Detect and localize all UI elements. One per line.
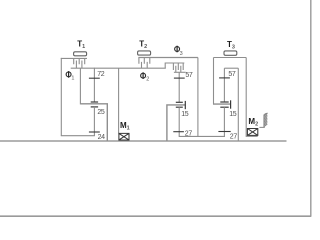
svg-text:T1: T1 xyxy=(77,40,85,51)
gear 72 vertical xyxy=(93,68,95,102)
gear 15 shaft lower (right group) xyxy=(223,107,225,136)
clutch F3 lower teeth xyxy=(176,66,181,73)
clutch F3 upper teeth xyxy=(173,63,183,70)
gear 57 vertical (right group) xyxy=(223,68,225,102)
svg-text:M2: M2 xyxy=(248,117,258,128)
page right border xyxy=(310,0,312,217)
clutch F3 lower bar xyxy=(174,71,186,73)
page bottom border xyxy=(0,215,311,217)
ring gear box right vertical xyxy=(237,68,239,141)
carrier end cap (right group) xyxy=(230,100,232,108)
gear 57 mesh tick (middle) xyxy=(174,77,185,79)
clutch F1 label xyxy=(66,72,71,77)
svg-text:T3: T3 xyxy=(227,40,235,51)
brake T3 band rectangle xyxy=(224,51,237,55)
motor M1 shaft xyxy=(118,68,120,133)
sun shaft vertical (left group) xyxy=(79,68,81,104)
svg-text:57: 57 xyxy=(185,72,193,79)
carrier bar (right group) xyxy=(213,103,231,105)
gear 27 mesh tick (right) xyxy=(218,131,230,133)
ring gear box top (right group) xyxy=(224,67,238,69)
svg-text:57: 57 xyxy=(228,71,236,78)
clutch F2 lower teeth xyxy=(142,62,148,68)
clutch F3 label xyxy=(175,47,180,52)
gear 27 mesh tick (middle) xyxy=(173,131,184,133)
bus A top line (T2 member to right drop) xyxy=(138,57,198,59)
housing box right vertical with motor flange xyxy=(246,58,258,137)
carrier tick upper (right group) xyxy=(220,101,228,103)
svg-text:15: 15 xyxy=(229,111,237,118)
bottom link shaft (middle to right group) xyxy=(179,135,225,137)
clutch F2 upper teeth xyxy=(139,58,150,64)
svg-text:M1: M1 xyxy=(120,121,130,132)
clutch F1 upper teeth xyxy=(74,58,85,64)
clutch F1 lower teeth xyxy=(76,61,82,69)
svg-text:2: 2 xyxy=(146,77,149,83)
motor M2 wall hatch symbol xyxy=(259,113,267,127)
middle shaft vertical upper xyxy=(178,72,180,102)
carrier tick upper (middle group) xyxy=(176,101,183,103)
gear 57 mesh tick (right) xyxy=(219,77,230,79)
svg-text:T2: T2 xyxy=(139,40,147,51)
brake T2 band rectangle xyxy=(138,51,151,55)
carrier end cap (middle group) xyxy=(184,101,186,109)
clutch F1 upper plate line xyxy=(61,57,87,59)
svg-text:27: 27 xyxy=(230,133,238,140)
svg-text:1: 1 xyxy=(71,75,74,81)
brake T1 band rectangle xyxy=(74,52,87,56)
bus A right drop xyxy=(197,58,199,137)
main shaft bus (F1 lower bar to F2, motor M1 tap) xyxy=(71,67,166,69)
gear 24 mesh tick xyxy=(89,131,100,133)
svg-text:3: 3 xyxy=(180,51,183,57)
carrier tick lower (right group) xyxy=(220,106,228,108)
frame bottom horizontal (left group) xyxy=(61,135,95,137)
carrier tick upper (left group) xyxy=(91,101,98,103)
middle shaft vertical lower xyxy=(178,107,180,136)
carrier tick lower (left group) xyxy=(91,106,98,108)
gear 24 vertical xyxy=(93,107,95,136)
carrier bar (left group) xyxy=(80,104,107,141)
svg-text:25: 25 xyxy=(97,109,105,116)
clutch F2 label xyxy=(141,73,146,78)
gear 72 mesh tick xyxy=(89,77,100,79)
svg-text:72: 72 xyxy=(97,71,105,78)
svg-text:24: 24 xyxy=(98,134,106,141)
motor M2 crossed box xyxy=(247,129,257,136)
svg-text:15: 15 xyxy=(181,111,189,118)
step link from bus to clutch F3 xyxy=(165,63,184,68)
frame left vertical (left group) xyxy=(60,58,62,136)
motor M1 crossed box xyxy=(119,133,129,140)
housing box left vertical (right group) xyxy=(213,58,215,105)
ground line xyxy=(0,140,287,142)
housing box top (right group) xyxy=(214,57,247,59)
carrier bar (middle group) xyxy=(167,105,185,141)
carrier tick lower (middle group) xyxy=(176,106,183,108)
